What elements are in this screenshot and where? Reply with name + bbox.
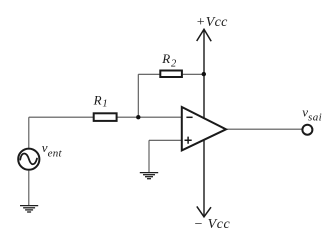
ground symbol below source xyxy=(20,206,38,212)
svg-text:R2: R2 xyxy=(161,51,177,69)
svg-text:R1: R1 xyxy=(93,93,108,110)
+Vcc arrowhead xyxy=(197,29,212,41)
junction dot at R1 / feedback node xyxy=(136,115,140,119)
svg-text:+Vcc: +Vcc xyxy=(196,15,228,30)
svg-text:vsai: vsai xyxy=(302,105,322,124)
resistor R1 body xyxy=(94,113,117,121)
svg-text:vent: vent xyxy=(42,140,63,159)
wire: non-inverting input horizontal xyxy=(149,139,182,141)
AC source V_ent circle xyxy=(18,149,39,170)
wire: feedback vertical riser xyxy=(137,74,139,117)
ground symbol at non-inverting input xyxy=(140,173,158,179)
output terminal circle v_sai xyxy=(302,125,312,135)
wire: main input horizontal (source to op-amp minus input) xyxy=(29,116,182,118)
wire: source vertical top segment xyxy=(28,117,30,148)
junction dot at R2 / power rail xyxy=(202,72,206,76)
wire: non-inverting input vertical to ground xyxy=(148,140,150,172)
op-amp U1 triangle xyxy=(182,107,226,150)
AC source sine wave xyxy=(20,153,37,164)
wire: output horizontal to terminal xyxy=(226,128,302,130)
resistor R2 body xyxy=(160,71,182,78)
-Vcc arrowhead xyxy=(197,206,211,216)
wire: source vertical bottom segment to ground xyxy=(28,171,30,206)
wire: Vcc power rail vertical (+Vcc to -Vcc) xyxy=(203,29,205,216)
svg-text:− Vcc: − Vcc xyxy=(194,217,231,232)
op-amp plus sign (non-inverting input) xyxy=(185,137,192,144)
wire: feedback horizontal through R2 xyxy=(138,73,204,75)
op-amp minus sign (inverting input) xyxy=(186,116,192,118)
